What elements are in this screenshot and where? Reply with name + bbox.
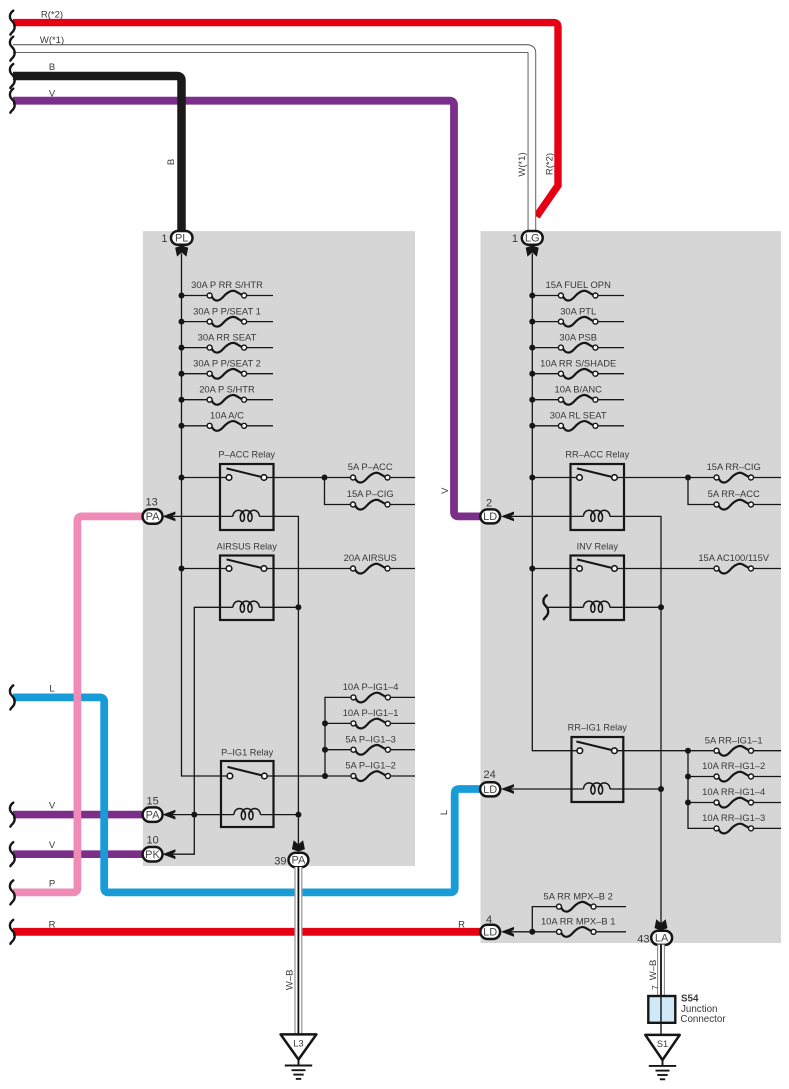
wire INV coil right (610, 606, 661, 608)
svg-text:PA: PA (291, 855, 306, 867)
svg-text:V: V (49, 840, 56, 851)
fuse 30A RR SEAT (182, 331, 274, 352)
svg-text:5A RR–IG1–1: 5A RR–IG1–1 (705, 734, 763, 745)
svg-text:10: 10 (146, 835, 158, 847)
fuse 10A RR-IG1-4 (702, 786, 781, 807)
ground triangle L3 (281, 1034, 317, 1065)
svg-text:5A P–IG1–2: 5A P–IG1–2 (345, 760, 396, 771)
svg-text:15A FUEL OPN: 15A FUEL OPN (546, 279, 611, 290)
svg-text:7: 7 (650, 985, 660, 990)
node rbus fuse6 (529, 423, 535, 429)
svg-text:39: 39 (274, 856, 286, 868)
node P-IG1 f2 (322, 720, 328, 726)
svg-text:10A RR–IG1–2: 10A RR–IG1–2 (702, 760, 765, 771)
relay INV U5 (571, 541, 625, 620)
node rbus fuse2 (529, 319, 535, 325)
node P-IG1 coil (295, 812, 301, 818)
fuse 10A RR-IG1-2 (702, 760, 781, 781)
relay AIRSUS U2 (217, 541, 278, 620)
relay RR-ACC U4 (565, 450, 629, 530)
wire branch 10A RR-IG1-4 (688, 802, 714, 804)
svg-text:30A P P/SEAT 1: 30A P P/SEAT 1 (193, 305, 261, 316)
connector 13 PA (143, 497, 176, 524)
wire P-IG1 relay output to fuse junction (264, 775, 350, 777)
relay block panel left (143, 231, 415, 866)
fuse 15A AC100/115V (698, 552, 781, 573)
svg-text:1: 1 (512, 233, 518, 245)
wire V to 15 PA (13, 811, 143, 819)
relay P-IG1 U3 (221, 748, 274, 828)
fuse 10A P-IG1-1 (343, 707, 415, 728)
node P-IG1 f3 (322, 747, 328, 753)
node bus fuse4 (179, 371, 185, 377)
svg-text:R: R (49, 920, 56, 931)
svg-text:15A AC100/115V: 15A AC100/115V (698, 552, 769, 563)
wire R (red, bottom) (13, 928, 480, 936)
fuse 15A FUEL OPN (532, 279, 624, 300)
wire right bus from 1 LG to RR-IG1 relay (532, 254, 580, 751)
wire V to 10 PK (13, 850, 143, 858)
svg-text:30A RL SEAT: 30A RL SEAT (550, 410, 607, 421)
svg-text:P–ACC Relay: P–ACC Relay (218, 450, 275, 460)
svg-text:B: B (166, 159, 177, 165)
connector 2 LD (480, 497, 514, 523)
fuse 10A A/C (182, 410, 274, 431)
connector 24 LD (480, 769, 514, 797)
squiggle R(*2) (10, 11, 15, 35)
wire branch to 5A RR-ACC (688, 478, 714, 505)
svg-text:W(*1): W(*1) (40, 35, 64, 46)
node RR-IG1 f2 (685, 774, 691, 780)
svg-text:V: V (49, 89, 56, 100)
svg-text:20A AIRSUS: 20A AIRSUS (344, 552, 397, 563)
svg-text:5A RR–ACC: 5A RR–ACC (708, 488, 760, 499)
node RR-IG1 coil (658, 786, 664, 792)
junction connector S54 (648, 996, 675, 1035)
wire P-IG1 fuse riser (325, 697, 351, 776)
node bus fuse2 (179, 319, 185, 325)
wire AIRSUS relay input (182, 568, 230, 570)
svg-text:10A B/ANC: 10A B/ANC (554, 383, 602, 394)
wire V (violet, top) (13, 101, 480, 517)
node bus fuse1 (179, 293, 185, 299)
wire 24 LD to RR-IG1 coil (507, 788, 584, 790)
wire B (black, top) (13, 76, 182, 232)
wire 2 LD to RR-ACC coil (507, 515, 584, 517)
fuse 10A P-IG1-4 (343, 681, 415, 702)
wire 4 LD to 10A RR MPX-B 1 (507, 931, 557, 933)
wire branch 10A RR-IG1-2 (688, 776, 714, 778)
node 15PA (191, 812, 197, 818)
svg-text:L3: L3 (293, 1039, 303, 1049)
node INV coil (658, 604, 664, 610)
svg-text:10A P–IG1–1: 10A P–IG1–1 (343, 707, 399, 718)
svg-text:20A P S/HTR: 20A P S/HTR (199, 383, 255, 394)
squiggle V 15PA (10, 803, 15, 827)
wire INV coil left stub (547, 606, 584, 608)
wire R(*2) (red, top) (13, 23, 558, 217)
svg-text:30A PSB: 30A PSB (559, 331, 597, 342)
node rbus fuse3 (529, 345, 535, 351)
wire RR-IG1 relay output to fuse junction (614, 750, 714, 752)
squiggle W(*1) (10, 37, 15, 61)
svg-text:P–IG1 Relay: P–IG1 Relay (221, 748, 273, 758)
svg-text:PK: PK (145, 849, 160, 861)
node rbus fuse4 (529, 371, 535, 377)
node RR-ACC out (685, 475, 691, 481)
squiggle L (10, 685, 15, 709)
fuse 10A B/ANC (532, 383, 624, 404)
fuse 5A RR-ACC (708, 488, 781, 509)
wire W(*1) white core (13, 49, 532, 232)
relay P-ACC U1 (218, 450, 275, 530)
svg-text:5A RR MPX–B 2: 5A RR MPX–B 2 (544, 890, 613, 901)
svg-text:LD: LD (483, 511, 497, 523)
node bus fuse6 (179, 423, 185, 429)
connector 15 PA (143, 795, 176, 822)
squiggle INV coil (543, 595, 548, 619)
wire branch to 5A RR MPX-B 2 (532, 907, 556, 932)
node rbus fuse1 (529, 293, 535, 299)
wire AIRSUS coil left down to 15 PA node (194, 607, 233, 814)
wire RR-IG1 coil right (610, 788, 661, 790)
fuse 30A P P/SEAT 1 (182, 305, 274, 326)
node P-IG1 out (322, 773, 328, 779)
fuse 5A RR-IG1-1 (705, 734, 781, 755)
svg-text:LG: LG (525, 233, 540, 245)
fuse 30A PTL (532, 305, 624, 326)
svg-text:RR–IG1 Relay: RR–IG1 Relay (568, 722, 628, 732)
ground triangle S1 (645, 1035, 679, 1066)
wire branch 10A P-IG1-1 (325, 722, 351, 724)
wire L (blue) (13, 697, 480, 892)
fuse 20A P S/HTR (182, 383, 274, 404)
connector 1 LG (512, 231, 543, 257)
wire INV relay output to 15A AC100/115V (615, 568, 714, 570)
fuse 15A P-CIG (347, 488, 415, 509)
fuse 5A P-ACC (348, 461, 415, 482)
fuse 10A RR S/SHADE (532, 357, 624, 378)
wire INV relay input (532, 568, 579, 570)
fuse 10A RR-IG1-3 (702, 812, 781, 833)
node bus P-ACC (179, 475, 185, 481)
svg-text:5A P–IG1–3: 5A P–IG1–3 (345, 733, 396, 744)
wire branch to 15A P-CIG (325, 478, 351, 505)
svg-text:R: R (458, 920, 465, 931)
squiggle P (10, 880, 15, 904)
fuse 15A RR-CIG (707, 461, 781, 482)
wire left bus from 1 PL to P-IG1 relay (182, 254, 230, 777)
squiggle R bottom (10, 920, 15, 944)
wire W(*1) outline (13, 49, 532, 232)
svg-text:W–B: W–B (285, 970, 296, 991)
wire W-B left (white with black stripe) (294, 867, 302, 1034)
fuse 5A RR MPX-B 2 (544, 890, 626, 911)
svg-text:L: L (439, 810, 450, 815)
squiggle V (10, 89, 15, 113)
connector 10 PK (143, 835, 176, 862)
svg-text:P: P (49, 879, 55, 890)
wire RR-IG1 fuse dropper (688, 751, 714, 829)
node rbus fuse5 (529, 397, 535, 403)
wire P-ACC coil to 39 PA vertical (259, 516, 298, 846)
svg-text:15A RR–CIG: 15A RR–CIG (707, 461, 761, 472)
svg-text:30A PTL: 30A PTL (560, 305, 596, 316)
wire RR-ACC relay output to fuse junction (615, 477, 714, 479)
svg-text:LA: LA (655, 932, 669, 944)
fuse 20A AIRSUS (344, 552, 415, 573)
wire 15 PA to P-IG1 coil (170, 814, 234, 816)
svg-text:PA: PA (146, 809, 161, 821)
svg-text:L: L (49, 684, 54, 695)
svg-text:AIRSUS Relay: AIRSUS Relay (217, 541, 278, 551)
node bus fuse3 (179, 345, 185, 351)
fuse 30A RL SEAT (532, 410, 624, 431)
fuse 5A P-IG1-2 (345, 760, 415, 781)
squiggle B (10, 64, 15, 88)
fuse 30A PSB (532, 331, 624, 352)
node rbus INV (529, 566, 535, 572)
fuse 10A RR MPX-B 1 (541, 916, 626, 937)
relay RR-IG1 U6 (568, 722, 628, 802)
squiggle V 10PK (10, 842, 15, 866)
wire P-IG1 coil right (260, 814, 298, 816)
node P-ACC out (322, 475, 328, 481)
wire RR-ACC relay input (532, 477, 579, 479)
wire node to 10 PK (170, 815, 195, 855)
connector 1 PL (161, 231, 192, 257)
wire RR-ACC coil to 43 LA vertical (610, 516, 661, 925)
svg-text:V: V (49, 801, 56, 812)
svg-text:30A P RR S/HTR: 30A P RR S/HTR (191, 279, 263, 290)
node RR-IG1 out (685, 748, 691, 754)
wire AIRSUS relay output to 20A AIRSUS (264, 568, 350, 570)
svg-text:15: 15 (146, 795, 158, 807)
svg-text:10A RR–IG1–4: 10A RR–IG1–4 (702, 786, 765, 797)
svg-text:30A P P/SEAT 2: 30A P P/SEAT 2 (193, 357, 261, 368)
svg-text:43: 43 (637, 934, 649, 946)
ground symbol L3 (285, 1066, 312, 1079)
svg-text:15A P–CIG: 15A P–CIG (347, 488, 394, 499)
svg-text:V: V (440, 487, 451, 494)
connector 39 PA (274, 840, 308, 867)
wire branch 5A P-IG1-3 (325, 749, 351, 751)
svg-text:B: B (49, 62, 55, 73)
wire W-B right (white with black stripe) (657, 945, 665, 996)
svg-text:10A RR–IG1–3: 10A RR–IG1–3 (702, 812, 765, 823)
svg-text:PA: PA (146, 511, 161, 523)
svg-text:10A A/C: 10A A/C (210, 410, 244, 421)
node bus fuse5 (179, 397, 185, 403)
node AIRSUS coil (295, 604, 301, 610)
ground symbol S1 (649, 1066, 676, 1079)
svg-text:30A RR SEAT: 30A RR SEAT (198, 331, 257, 342)
svg-text:R(*2): R(*2) (41, 10, 63, 21)
svg-text:W–B: W–B (648, 960, 659, 981)
svg-text:INV Relay: INV Relay (577, 541, 619, 551)
svg-text:2: 2 (486, 497, 492, 509)
node RR-IG1 f3 (685, 800, 691, 806)
wire AIRSUS coil right (259, 606, 298, 608)
wire P-ACC relay input (182, 477, 230, 479)
svg-text:24: 24 (483, 769, 495, 781)
node bus AIRSUS (179, 566, 185, 572)
relay block panel right (481, 231, 782, 943)
wire P-ACC relay output to fuse junction (264, 477, 350, 479)
wire P (pink) (13, 516, 143, 892)
fuse 30A P RR S/HTR (182, 279, 274, 300)
svg-text:10A RR MPX–B 1: 10A RR MPX–B 1 (541, 916, 616, 927)
connector 43 LA (637, 919, 672, 946)
svg-text:10A RR S/SHADE: 10A RR S/SHADE (540, 357, 616, 368)
wire 13 PA to P-ACC coil (170, 515, 233, 517)
svg-text:13: 13 (145, 497, 157, 509)
connector 4 LD (480, 914, 514, 939)
svg-text:W(*1): W(*1) (517, 152, 528, 176)
svg-text:5A P–ACC: 5A P–ACC (348, 461, 393, 472)
fuse 30A P P/SEAT 2 (182, 357, 274, 378)
svg-text:S1: S1 (657, 1039, 668, 1049)
svg-text:Connector: Connector (680, 1014, 726, 1025)
svg-text:LD: LD (483, 784, 497, 796)
svg-text:PL: PL (175, 233, 188, 245)
label S54 Junction Connector (680, 994, 726, 1025)
fuse 5A P-IG1-3 (345, 733, 415, 754)
svg-text:10A P–IG1–4: 10A P–IG1–4 (343, 681, 399, 692)
svg-text:LD: LD (483, 927, 497, 939)
svg-text:RR–ACC Relay: RR–ACC Relay (565, 450, 629, 460)
svg-text:R(*2): R(*2) (545, 153, 556, 175)
node rbus RR-ACC (529, 475, 535, 481)
svg-text:1: 1 (161, 233, 167, 245)
node 4LD (529, 929, 535, 935)
